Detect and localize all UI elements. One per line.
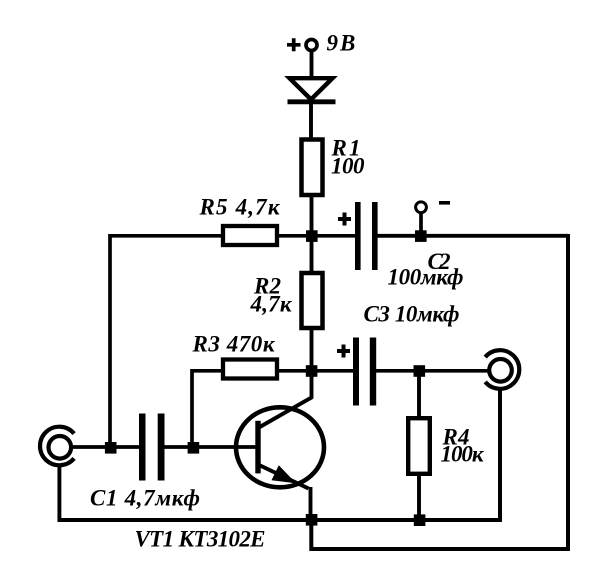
terminal +9V: [306, 40, 317, 51]
node C3 output junction: [414, 365, 426, 377]
capacitor C1: [139, 414, 165, 481]
wire: [417, 474, 421, 522]
resistor R3: [223, 360, 277, 379]
svg-text:100мкф: 100мкф: [388, 265, 464, 290]
resistor R2: [302, 273, 323, 328]
svg-text:R3 470к: R3 470к: [192, 332, 276, 357]
connector output XS2: [485, 350, 519, 389]
wire: [310, 195, 314, 232]
label + (C2 plus): [338, 213, 351, 226]
svg-text:100: 100: [331, 154, 365, 179]
wire: [417, 375, 421, 417]
label + (supply plus): [287, 38, 301, 51]
capacitor C2: [355, 202, 378, 270]
label C2 100мкф: [388, 249, 464, 290]
svg-text:C1 4,7мкф: C1 4,7мкф: [90, 486, 200, 511]
wire: [310, 240, 314, 273]
node input junction: [105, 442, 117, 454]
resistor R5: [223, 226, 277, 245]
node R4 bottom junction: [414, 514, 426, 526]
svg-text:9: 9: [327, 31, 339, 56]
wire: [309, 102, 313, 139]
wire: [165, 445, 257, 449]
label R4 100к: [441, 425, 485, 467]
wire: [192, 371, 221, 450]
wire: [277, 369, 308, 373]
connector input XS1: [40, 427, 74, 466]
wire: [108, 234, 112, 450]
label + (C3 plus): [337, 345, 350, 358]
wire: [419, 213, 423, 232]
svg-text:R5 4,7к: R5 4,7к: [199, 195, 281, 220]
wire: [57, 466, 61, 522]
wire: [317, 369, 353, 373]
wire: [110, 234, 222, 238]
wire: [73, 445, 141, 449]
node emitter ground junction: [306, 514, 318, 526]
transistor VT1: [236, 368, 324, 521]
svg-text:В: В: [339, 31, 355, 56]
wire: [277, 234, 355, 238]
label 9 В: [327, 31, 356, 56]
wire ground rail: [58, 518, 502, 522]
svg-text:100к: 100к: [441, 442, 485, 467]
node base junction: [188, 442, 200, 454]
wire: [498, 389, 502, 522]
node C2 output junction: [415, 230, 427, 242]
label R2 4,7к: [250, 274, 293, 317]
resistor R4: [408, 418, 430, 474]
label minus: [439, 201, 450, 205]
svg-text:C3 10мкф: C3 10мкф: [364, 302, 460, 327]
node B junction: [306, 365, 318, 377]
node A junction: [306, 230, 318, 242]
terminal minus: [416, 202, 427, 213]
wire: [311, 234, 568, 549]
capacitor C3: [353, 338, 376, 406]
svg-text:VT1 КТ3102Е: VT1 КТ3102Е: [135, 527, 266, 552]
label R1 100: [331, 136, 366, 179]
wire: [378, 234, 569, 238]
wire: [310, 52, 314, 78]
resistor R1: [302, 140, 323, 196]
wire: [376, 369, 488, 373]
svg-text:4,7к: 4,7к: [250, 292, 293, 317]
diode VD1: [288, 78, 336, 102]
wire: [310, 328, 314, 367]
